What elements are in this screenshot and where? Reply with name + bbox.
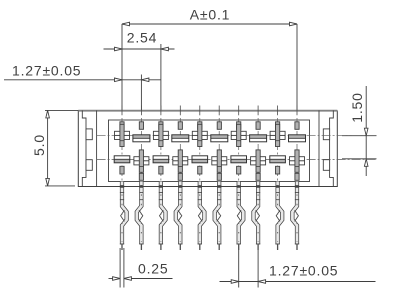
lead pin 7 [237, 182, 244, 251]
contact bottom row pin 10 (cross) [290, 150, 305, 180]
pin 2 centerline [140, 106, 142, 197]
contact bottom row pin 8 (cross) [251, 150, 266, 180]
contact bottom row pin 5 (bar) [192, 156, 208, 174]
lead pin 2 [137, 182, 144, 251]
svg-text:1.27±0.05: 1.27±0.05 [269, 263, 338, 279]
left end cap profile [82, 111, 96, 187]
contact top row pin 7 (cross) [231, 122, 246, 147]
pin 3 centerline [160, 106, 162, 197]
contact top row pin 9 (cross) [270, 122, 285, 147]
svg-text:1.50: 1.50 [349, 92, 365, 122]
svg-text:1.27±0.05: 1.27±0.05 [12, 63, 81, 79]
dimension 2.54 [104, 30, 175, 111]
lead pin 1 [120, 182, 127, 251]
right end cap profile [319, 111, 333, 187]
lead pin 5 [198, 182, 205, 251]
body bottom edge overlay [78, 185, 337, 188]
contact bottom row pin 3 (bar) [153, 156, 169, 174]
pin 5 centerline [199, 106, 201, 197]
lead pin 4 [176, 182, 183, 251]
lead pin 6 [215, 182, 222, 251]
contact top row pin 4 (bar) [172, 122, 189, 142]
lead pin 8 [254, 182, 261, 251]
contact bottom row pin 2 (cross) [134, 150, 149, 180]
contact top row pin 6 (bar) [211, 122, 228, 142]
contact bottom row pin 7 (bar) [231, 156, 247, 174]
svg-text:A±0.1: A±0.1 [190, 7, 230, 23]
pin 9 centerline [277, 106, 279, 197]
contact top row pin 10 (bar) [289, 122, 306, 142]
pin 6 centerline [218, 106, 220, 197]
pin 10 centerline [296, 106, 298, 197]
contact top row pin 8 (bar) [250, 122, 267, 142]
dimension 1.27±0.05 bottom [220, 250, 376, 288]
contact top row pin 2 (bar) [133, 122, 150, 142]
svg-text:5.0: 5.0 [31, 134, 47, 156]
contact top row pin 3 (cross) [153, 122, 168, 147]
inner cavity [109, 120, 310, 182]
contact top row pin 5 (cross) [192, 122, 207, 147]
contact bottom row pin 6 (cross) [212, 150, 227, 180]
contact bottom row pin 4 (cross) [173, 150, 188, 180]
pin 8 centerline [257, 106, 259, 197]
dimension 1.27±0.05 top [4, 63, 161, 111]
row centerline bottom [97, 158, 377, 160]
row centerline top [97, 135, 377, 137]
svg-text:2.54: 2.54 [127, 30, 157, 46]
contact bottom row pin 1 (bar) [114, 156, 130, 174]
pin 4 centerline [179, 106, 181, 197]
lead pin 10 [292, 182, 299, 251]
contact top row pin 1 (cross) [115, 122, 130, 147]
pin 1 centerline [121, 106, 123, 197]
lead pin 9 [275, 182, 282, 251]
dimension 5.0 [31, 110, 79, 185]
dimension A±0.1 [122, 7, 297, 111]
contact bottom row pin 9 (bar) [270, 156, 286, 174]
connector body outline [78, 111, 337, 187]
dimension 0.25 [109, 248, 173, 288]
pin 7 centerline [238, 106, 240, 197]
lead pin 3 [159, 182, 166, 251]
svg-text:0.25: 0.25 [138, 261, 168, 277]
dimension 1.50 [342, 86, 377, 176]
